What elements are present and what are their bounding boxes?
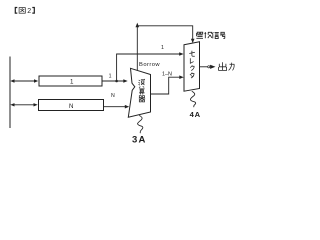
register 1 box: [39, 76, 102, 86]
bidirectional bus arrow to register 1: [13, 80, 36, 82]
selector katakana KU: [190, 65, 194, 70]
junction node dot: [115, 80, 118, 83]
register N box: [39, 100, 104, 111]
title Fig-2 kanji ZU (box): [19, 8, 25, 14]
select signal wire to selector: [137, 26, 192, 41]
svg-text:1: 1: [161, 45, 164, 51]
kanji SHUTSU: [219, 62, 227, 70]
leader squiggle to 3A: [138, 115, 143, 133]
selector 4A body (parallelogram): [184, 42, 200, 91]
svg-text:2: 2: [27, 8, 31, 15]
left data bus (vertical): [9, 57, 11, 129]
svg-text:N: N: [111, 93, 115, 99]
svg-text:1: 1: [70, 79, 74, 86]
svg-text:Borrow: Borrow: [139, 62, 160, 68]
kanji SEN: [196, 32, 203, 38]
title [Fig 2] bracket left: [15, 8, 17, 14]
subtractor 3A body (ALU shape): [128, 68, 150, 117]
wire branch from junction up to selector input 1: [117, 54, 181, 81]
selector katakana SE: [189, 51, 195, 56]
leader squiggle to 4A: [190, 91, 195, 107]
bidirectional bus arrow to register N: [13, 104, 36, 106]
borrow wire up from subtractor: [136, 26, 138, 70]
title bracket right: [32, 8, 34, 14]
kanji RYOKU: [229, 63, 235, 71]
subtractor output wire to selector input 1-N: [151, 77, 182, 94]
label select-signal (sentaku shingo): [196, 32, 225, 39]
svg-text:1: 1: [109, 73, 112, 79]
svg-text:N: N: [69, 103, 73, 110]
arrowhead up at select line: [136, 23, 140, 28]
subtractor kanji SAN: [139, 87, 145, 95]
svg-text:4A: 4A: [190, 110, 201, 119]
svg-text:3A: 3A: [132, 134, 147, 145]
svg-text:1–N: 1–N: [162, 71, 172, 77]
output wire from selector: [200, 66, 208, 68]
subtractor kanji KI: [139, 96, 145, 102]
wire register1 output to subtractor input A: [102, 80, 124, 82]
selector katakana RE: [190, 58, 193, 63]
kanji GOU: [220, 32, 225, 38]
selector katakana TA: [190, 73, 194, 79]
wire registerN output to subtractor input B: [104, 106, 127, 108]
kanji SHIN: [212, 32, 219, 38]
label output (shutsuryoku): [219, 62, 235, 70]
subtractor kanji GEN: [139, 79, 145, 85]
kanji TAKU: [204, 32, 212, 38]
